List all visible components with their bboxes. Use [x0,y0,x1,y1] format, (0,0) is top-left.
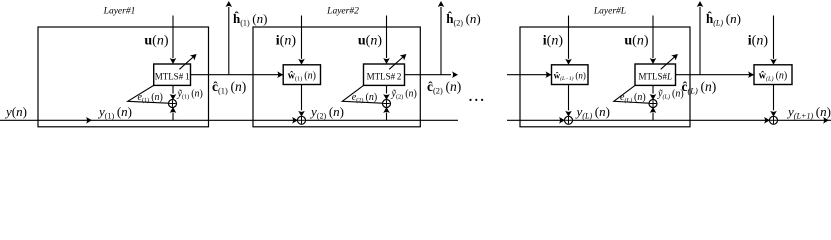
wire i(n) input line layerL [565,16,572,65]
wire u(n) input line layerL [650,16,657,65]
label y_(L+1)(n) [786,104,831,120]
label ytilde_(1)(n) [177,89,203,101]
label hhat_(L)(n) [706,11,741,27]
svg-text:Layer#1: Layer#1 [103,7,136,17]
wire i(n) input line final [770,16,777,65]
wire hhat_(1) up arrow [226,1,233,75]
label Layer#1 [103,7,136,17]
adder oplus layer2 mtls [383,100,391,108]
wire ytilde down arrow MTLS#2 to adder [383,85,390,100]
adder oplus final [770,116,778,124]
label what_(L-1)(n) [554,71,586,83]
svg-text:u(n): u(n) [358,34,382,49]
label what_(L)(n) [759,71,788,83]
wire whatL down output to adder [770,85,777,117]
label what_(1)(n) [288,71,316,83]
block Layer#2 outer box [253,27,420,127]
svg-text:ĥ(L)​ (n): ĥ(L)​ (n) [706,11,741,27]
wire bottom-line arrowhead into adder final [764,117,770,124]
block Layer#1 outer box [38,27,209,127]
block what_(L-1) box [552,65,589,85]
svg-text:ĉ(L)​ (n): ĉ(L)​ (n) [682,79,717,95]
svg-text:MTLS#L: MTLS#L [638,72,672,82]
label i(n) layerL [543,34,564,49]
wire y(n) bottom line (x 0-458) [0,119,458,121]
wire c_(L) output line [676,71,755,78]
wire bottom-line arrowhead into adder2 [292,117,298,124]
svg-text:Layer#2: Layer#2 [326,7,359,17]
label hhat_(1)(n) [233,11,267,27]
label ytilde_(2)(n) [391,89,417,101]
svg-text:i(n): i(n) [748,34,769,49]
wire i(n) input line layer2 [298,16,305,65]
svg-text:ĥ(1)​ (n): ĥ(1)​ (n) [233,11,267,27]
label u(n) layer2 [358,34,382,49]
adder oplus layerL bottom [565,116,573,124]
svg-text:MTLS# 2: MTLS# 2 [367,72,402,82]
wire whatL1 down output to adder [565,85,572,117]
label Layer#L [593,7,626,17]
block what_(1) box [283,65,320,85]
label Layer#2 [326,7,359,17]
svg-text:ŵ(1)​ (n): ŵ(1)​ (n) [288,71,316,83]
label e_(2)(n) [352,92,377,104]
wire up arrow bottom line to adder2m [383,107,390,120]
wire up arrow bottom line to adder1 [170,107,177,120]
svg-text:u(n): u(n) [624,34,648,49]
label ytilde_(L)(n) [657,89,684,101]
wire bottom line end arrowhead [823,117,829,124]
arrow adaptation MTLS#L [661,54,678,69]
ellipsis dots [469,99,483,101]
label u(n) layerL [624,34,648,49]
label MTLS#2 [367,72,402,82]
label u(n) layer1 [144,34,168,49]
wire what1 down output to adder [298,85,305,117]
svg-text:ĉ(2)​ (n): ĉ(2)​ (n) [427,79,461,95]
wire hhat_(2) up arrow [438,1,445,75]
wire u(n) input line layer1 [170,16,177,65]
svg-text:ŵ(L)​ (n): ŵ(L)​ (n) [759,71,788,83]
svg-text:e(L)​ (n): e(L)​ (n) [620,92,646,104]
wire mid line resume to layerL [507,71,552,78]
svg-text:y(1)​ (n): y(1)​ (n) [97,104,132,120]
label e_(L)(n) [620,92,646,104]
svg-text:i(n): i(n) [276,34,297,49]
svg-text:e(1)​ (n): e(1)​ (n) [138,92,163,104]
svg-text:ĉ(1)​ (n): ĉ(1)​ (n) [212,79,246,95]
wire e_(2) feedback polyline [342,85,382,103]
wire ytilde down arrow MTLS#1 to adder [170,85,177,100]
wire u(n) input line layer2 [383,16,390,65]
adder oplus layer1 [169,100,177,108]
adder oplus layerL mtls [649,100,657,108]
wire e_(L) feedback polyline [614,85,649,103]
svg-text:Layer#L: Layer#L [593,7,626,17]
arrow adaptation MTLS#1 [179,54,196,69]
wire bottom line resume [507,119,831,121]
svg-text:ỹ(2)​ (n): ỹ(2)​ (n) [391,89,417,101]
block MTLS#2 box [364,64,405,85]
svg-text:ĥ(2)​ (n): ĥ(2)​ (n) [446,11,480,27]
adder oplus layer2 bottom [298,116,306,124]
wire ytilde down arrow MTLS#L to adder [650,85,657,100]
svg-text:ỹ(L)​ (n): ỹ(L)​ (n) [657,89,684,101]
label chat_(1)(n) [212,79,246,95]
svg-text:u(n): u(n) [144,34,168,49]
block MTLS#1 box [154,64,191,85]
node y_(1)(n) label [97,104,132,120]
svg-text:y(n): y(n) [4,104,27,119]
wire bottom-line arrowhead into adderL [559,117,565,124]
label MTLS#1 [155,72,190,82]
svg-text:ỹ(1)​ (n): ỹ(1)​ (n) [177,89,203,101]
wire up arrow bottom line to adderLm [650,107,657,120]
svg-text:e(2)​ (n): e(2)​ (n) [352,92,377,104]
wire e_(1) feedback polyline [128,85,169,103]
block what_(L) box [754,65,792,85]
label MTLS#L [638,72,672,82]
svg-text:y(L)​ (n): y(L)​ (n) [575,104,610,120]
svg-text:i(n): i(n) [543,34,564,49]
svg-text:y(2)​ (n): y(2)​ (n) [309,104,344,120]
wire hhat_(L) up arrow [697,1,704,75]
label y_(2)(n) [309,104,344,120]
wire c_(2) output line [405,71,459,78]
block MTLS#L box [635,64,676,85]
wire c_(1) output line [191,71,284,78]
label hhat_(2)(n) [446,11,480,27]
label chat_(L)(n) [682,79,717,95]
arrow adaptation MTLS#2 [389,54,406,69]
label y_(L)(n) [575,104,610,120]
node y(n) input label [4,104,27,119]
label chat_(2)(n) [427,79,461,95]
svg-text:MTLS# 1: MTLS# 1 [155,72,190,82]
block Layer#L outer box [520,27,690,127]
wire bottom-line arrowhead at x=91 [86,117,92,124]
label i(n) final [748,34,769,49]
label e_(1)(n) [138,92,163,104]
label i(n) layer2 [276,34,297,49]
